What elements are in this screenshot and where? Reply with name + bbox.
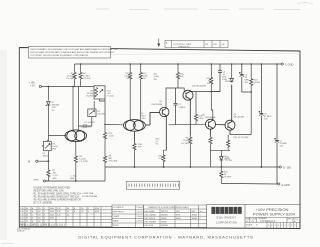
ECO strip text	[166, 42, 225, 49]
parts list table	[19, 207, 112, 227]
svg-text:64: 64	[67, 208, 69, 210]
notice box	[29, 46, 111, 58]
diode D4	[230, 64, 234, 82]
svg-text:1,500: 1,500	[109, 136, 115, 138]
D1 value label	[52, 102, 60, 112]
svg-text:DRA 102: DRA 102	[17, 230, 25, 233]
transistor Q2 dual 2N2060	[123, 120, 145, 142]
node junction A	[48, 86, 50, 88]
R2 value label	[53, 170, 58, 180]
svg-text:RESISTORS ARE 1/4W, 10%: RESISTORS ARE 1/4W, 10%	[34, 189, 64, 192]
wire R2 bottom	[46, 178, 49, 181]
svg-text:2: 2	[294, 225, 295, 227]
wire R13 to R8	[104, 140, 106, 154]
svg-text:1N645: 1N645	[192, 214, 198, 216]
svg-text:2-10: 2-10	[57, 208, 61, 210]
terminal M	[28, 160, 48, 164]
trimpot R7 box	[88, 101, 96, 117]
node bus junction R4	[80, 63, 82, 65]
wire Q1 collector right	[78, 87, 80, 131]
C5 value label	[245, 74, 250, 84]
svg-text:WW: WW	[52, 149, 56, 151]
wire left column upper	[47, 87, 49, 101]
svg-text:TC-200: TC-200	[107, 96, 115, 98]
svg-text:DEC3009B: DEC3009B	[152, 104, 163, 106]
svg-text:2: 2	[200, 218, 201, 220]
wire R8 to mid bus	[104, 164, 106, 167]
svg-text:STEPHSON: STEPHSON	[113, 212, 124, 214]
R7 value label	[97, 111, 105, 116]
R19 floating label	[156, 138, 161, 145]
svg-text:WADE: WADE	[113, 220, 119, 223]
svg-text:2-10: 2-10	[20, 208, 24, 210]
svg-text:1%,.4W: 1%,.4W	[66, 78, 73, 80]
node bus junction R18	[211, 63, 213, 65]
zener D1	[46, 102, 50, 107]
parts list text	[20, 207, 99, 226]
wire R21 bottom	[189, 145, 191, 167]
svg-text:DM: DM	[214, 44, 217, 46]
svg-text:2-10: 2-10	[20, 211, 24, 213]
svg-text:DEC3009B: DEC3009B	[205, 117, 216, 119]
ground bus wire	[221, 182, 277, 185]
svg-text:GRN: GRN	[34, 179, 39, 181]
svg-text:64: 64	[67, 211, 69, 213]
R17 value label	[158, 156, 163, 161]
resistor R1	[73, 64, 76, 87]
node bus junction R12	[129, 63, 131, 65]
svg-text:t: t	[231, 210, 232, 214]
transistor Q5	[206, 117, 216, 136]
node bus junction R15	[177, 63, 179, 65]
signature table text	[113, 206, 143, 227]
bottom strip text	[246, 224, 295, 227]
notes block	[34, 186, 82, 204]
R26 value label	[225, 157, 232, 162]
svg-text:2: 2	[285, 225, 286, 227]
svg-text:DEC3009B: DEC3009B	[234, 116, 245, 118]
node junction R16	[134, 166, 136, 168]
node bus junction C6	[261, 63, 263, 65]
svg-text:1N430: 1N430	[161, 222, 167, 224]
svg-text:R1, R2 AND R4 ARE 1N645 CPML T: R1, R2 AND R4 ARE 1N645 CPML TYPE 1CA	[34, 192, 82, 195]
Q6 reference label	[234, 114, 245, 119]
svg-text:2-10: 2-10	[20, 214, 24, 216]
node bus junction R22	[250, 63, 252, 65]
D2 label	[43, 153, 50, 158]
svg-text:.01MFD: .01MFD	[178, 107, 186, 109]
capacitor C7	[274, 64, 279, 184]
wire R17 leads	[164, 150, 167, 167]
title text	[253, 207, 296, 217]
svg-text:3: 3	[44, 214, 45, 216]
svg-text:1%,1/4W: 1%,1/4W	[181, 143, 189, 145]
resistor R26	[227, 135, 230, 151]
node junction +10V rail	[72, 86, 74, 88]
R5 note label	[107, 91, 115, 98]
svg-text:64: 64	[26, 208, 28, 210]
svg-text:2: 2	[44, 211, 45, 213]
svg-text:2: 2	[291, 225, 292, 227]
resistor R20	[194, 92, 197, 125]
svg-text:5%: 5%	[156, 144, 159, 146]
R1 value label	[66, 73, 74, 80]
svg-text:56,000: 56,000	[254, 82, 261, 84]
wire Q1 emitter	[75, 142, 77, 154]
wire Q5 emitter chain	[211, 145, 231, 167]
svg-text:DEC 2N2060: DEC 2N2060	[145, 214, 156, 216]
svg-text:2-10: 2-10	[20, 218, 24, 220]
wire left column mid	[47, 105, 49, 141]
svg-text:2N1754: 2N1754	[161, 211, 168, 213]
svg-text:1,000: 1,000	[198, 118, 204, 120]
wire Q5 base feed	[169, 123, 206, 126]
D4 value label	[225, 78, 232, 83]
svg-text:6534: 6534	[176, 214, 180, 216]
resistor R17	[162, 153, 165, 163]
svg-text:1N645: 1N645	[225, 81, 232, 83]
svg-text:CS 6204-0-1: CS 6204-0-1	[260, 219, 276, 223]
svg-text:DEC: DEC	[176, 211, 181, 213]
R22 value label	[254, 79, 261, 84]
connector J1	[127, 181, 180, 189]
svg-text:COLLATE R: COLLATE R	[113, 206, 124, 209]
capacitor C3	[211, 64, 222, 92]
svg-text:1%,1/4W: 1%,1/4W	[79, 161, 87, 163]
svg-text:2: 2	[278, 225, 279, 227]
diode D3	[220, 150, 224, 167]
resistor R16	[133, 142, 136, 152]
potentiometer R5 box	[94, 86, 105, 99]
C6 value label	[264, 113, 272, 120]
svg-text:DEC 3208: DEC 3208	[145, 225, 154, 227]
R20 value label	[198, 115, 204, 120]
svg-text:50V: 50V	[280, 146, 284, 148]
wire Q1 base feed	[48, 135, 64, 137]
resistor R22a	[209, 136, 212, 146]
terminal +10V IN	[29, 82, 42, 88]
svg-text:M: M	[28, 160, 30, 164]
node mid bus junction C6	[261, 166, 263, 168]
Q5 reference label	[202, 114, 216, 119]
R12 value label	[124, 73, 130, 80]
svg-text:JW: JW	[205, 44, 208, 46]
svg-text:SCALE: SCALE	[246, 224, 253, 227]
capacitor C2	[79, 124, 86, 128]
wire Q3 collector row	[193, 91, 220, 93]
wire left column lower	[47, 151, 49, 169]
mid bus wire	[105, 166, 279, 168]
svg-text:5W: 5W	[143, 78, 146, 80]
conversion chart text	[145, 206, 203, 227]
svg-text:5%,WW: 5%,WW	[224, 177, 232, 179]
R5 value label	[86, 91, 94, 98]
svg-text:430B: 430B	[176, 218, 181, 220]
potentiometer R6	[42, 140, 51, 151]
DEC logo digital	[211, 207, 241, 214]
resistor R18	[210, 64, 213, 92]
svg-text:CORPORATION: CORPORATION	[216, 221, 237, 225]
C7 value label	[280, 140, 288, 147]
svg-text:d: d	[212, 210, 214, 214]
svg-text:1N3208: 1N3208	[161, 225, 168, 227]
resistor R4	[79, 64, 82, 87]
svg-text:6204: 6204	[50, 218, 54, 220]
svg-text:DEC 1N430B: DEC 1N430B	[145, 222, 157, 224]
node bus junction D4	[231, 63, 233, 65]
svg-text:R5, R6 AND R8 ARE GRADE 2M TYP: R5, R6 AND R8 ARE GRADE 2M TYPE E2A	[34, 195, 80, 198]
svg-text:EQUIPMENT: EQUIPMENT	[217, 216, 237, 220]
svg-text:Q1 2N2060: Q1 2N2060	[81, 126, 92, 128]
svg-text:BY G.A. WIREWD: BY G.A. WIREWD	[34, 201, 53, 204]
node C GND terminal	[281, 63, 293, 67]
svg-text:+ IN: + IN	[30, 85, 35, 88]
node junction R17	[163, 166, 165, 168]
R10 value label	[143, 73, 149, 80]
R9 tolerance note	[70, 175, 75, 180]
resistor R8	[103, 154, 106, 164]
node bus junction R10	[140, 63, 142, 65]
svg-text:64: 64	[26, 221, 28, 223]
resistor R13	[103, 131, 106, 141]
svg-text:2: 2	[275, 225, 276, 227]
svg-text:2-10: 2-10	[20, 221, 24, 223]
svg-text:6204: 6204	[50, 211, 54, 213]
svg-text:Q3 DEC3009B: Q3 DEC3009B	[192, 86, 206, 88]
ECO revision strip	[165, 40, 228, 47]
svg-text:5%: 5%	[52, 110, 55, 112]
transistor Q1 dual 2N2060	[65, 130, 87, 142]
svg-text:1N430: 1N430	[192, 218, 198, 220]
wire R5 to R13 column	[100, 86, 106, 131]
wire +10V IN rail	[41, 86, 94, 88]
svg-text:2-10-64: 2-10-64	[136, 207, 143, 209]
transistor Q4	[146, 107, 169, 150]
top bus wire	[75, 63, 282, 65]
svg-text:CHANGE NO: CHANGE NO	[178, 45, 191, 48]
svg-text:2: 2	[268, 225, 269, 227]
capacitor C1	[174, 88, 178, 125]
D3 value label	[224, 156, 231, 161]
svg-text:C GND: C GND	[285, 63, 293, 67]
resistor R15	[166, 64, 184, 107]
svg-text:6204: 6204	[95, 211, 99, 213]
svg-text:1N645: 1N645	[224, 158, 231, 160]
size row text	[246, 218, 299, 223]
capacitor C6	[259, 64, 264, 167]
svg-text:R9, R21 ARE 50 PPM SUPERIOR RE: R9, R21 ARE 50 PPM SUPERIOR RESISTOR	[34, 198, 82, 201]
R4 value label	[83, 73, 90, 80]
R16 value label	[138, 144, 143, 149]
svg-text:2: 2	[271, 225, 272, 227]
production note text	[83, 192, 98, 198]
R23 value label	[224, 171, 232, 178]
title block size row	[245, 217, 300, 222]
svg-text:REV: REV	[288, 218, 293, 220]
svg-text:5: 5	[44, 221, 45, 223]
terminal D -15V	[279, 166, 291, 170]
svg-text:DEC 6534 B: DEC 6534 B	[145, 218, 156, 220]
svg-text:1%,WW: 1%,WW	[86, 96, 94, 98]
wire Q1 collector left	[72, 87, 74, 131]
svg-text:D -15V: D -15V	[283, 166, 291, 170]
svg-text:2: 2	[281, 225, 282, 227]
R13 value label	[109, 133, 115, 138]
svg-text:THIS SCHEMATIC IS FURNISHED ON: THIS SCHEMATIC IS FURNISHED ONLY FOR TES…	[30, 48, 118, 51]
svg-text:WW: WW	[53, 178, 57, 180]
node junction M	[48, 160, 50, 162]
svg-text:E GRD: E GRD	[282, 183, 290, 187]
svg-text:WW: WW	[70, 178, 74, 180]
svg-text:R24 10 5%,WW: R24 10 5%,WW	[234, 137, 249, 139]
svg-text:g: g	[221, 210, 223, 214]
svg-text:6204: 6204	[50, 208, 54, 210]
svg-text:DEC 3009B: DEC 3009B	[145, 211, 156, 213]
svg-text:COPYRIGHT 1963 BY DIGITAL EQUI: COPYRIGHT 1963 BY DIGITAL EQUIPMENT CORP…	[30, 54, 89, 57]
R18 value label	[206, 78, 211, 85]
svg-text:1: 1	[200, 214, 201, 216]
svg-text:5W: 5W	[126, 78, 129, 80]
svg-text:CLARK: CLARK	[113, 215, 120, 218]
svg-text:1: 1	[88, 208, 89, 210]
svg-text:CIRCUITS ARE PROPRIETARY IN NA: CIRCUITS ARE PROPRIETARY IN NATURE AND S…	[30, 51, 115, 54]
notice text	[30, 48, 118, 57]
svg-text:2: 2	[288, 225, 289, 227]
svg-text:250,000: 250,000	[97, 114, 105, 116]
wire ground rail y181	[46, 167, 106, 181]
svg-text:64: 64	[67, 214, 69, 216]
svg-text:64: 64	[26, 218, 28, 220]
svg-text:1N645: 1N645	[161, 218, 167, 220]
node junction C3 bottom	[211, 91, 213, 93]
svg-text:E DNB PNB IAB: E DNB PNB IAB	[83, 195, 98, 198]
DEC form note	[17, 228, 31, 232]
conversion chart table	[144, 205, 207, 227]
node junction R21	[189, 166, 191, 168]
terminal E GND	[278, 183, 290, 187]
resistor R12	[129, 64, 132, 120]
C3 value label	[222, 71, 227, 81]
svg-text:1: 1	[44, 208, 45, 210]
transistor Q6	[216, 85, 236, 135]
wire Q6 emitter row	[230, 134, 251, 136]
svg-text:POWER SUPPLY 6204: POWER SUPPLY 6204	[253, 212, 296, 217]
svg-text:50V: 50V	[245, 82, 249, 84]
node junction R13 top	[104, 124, 106, 126]
svg-text:a: a	[234, 210, 236, 214]
svg-text:TRANSISTOR & DIODE CONVERSION: TRANSISTOR & DIODE CONVERSION CHART	[148, 206, 190, 209]
resistor R21	[189, 136, 192, 146]
svg-text:DIGITAL EQUIPMENT CORPORATION: DIGITAL EQUIPMENT CORPORATION · MAYNARD,…	[78, 235, 253, 240]
wire Q5 collector	[211, 92, 213, 118]
wire Q2 base feed	[105, 123, 123, 125]
svg-text:2-10-64: 2-10-64	[136, 216, 143, 218]
Q4 reference label	[152, 101, 163, 106]
capacitor C5	[239, 64, 251, 92]
node junction ground rail	[75, 180, 77, 182]
svg-text:4: 4	[44, 218, 45, 220]
svg-text:2-10-64: 2-10-64	[136, 221, 143, 223]
R15 value label	[180, 74, 185, 79]
R14 value label	[142, 115, 147, 120]
svg-text:64: 64	[26, 214, 28, 216]
title block divider lines	[207, 204, 300, 227]
svg-text:27%,WW: 27%,WW	[109, 161, 118, 163]
node bus junction C7	[276, 63, 278, 65]
svg-text:64: 64	[26, 211, 28, 213]
svg-text:2N2060: 2N2060	[161, 214, 168, 216]
svg-text:UNLESS OTHERWISE INDICATED:: UNLESS OTHERWISE INDICATED:	[34, 186, 72, 189]
R6 value label	[52, 143, 58, 150]
wire R7 to C2	[86, 117, 92, 126]
svg-text:2-10-64: 2-10-64	[136, 212, 143, 214]
resistor R10	[139, 64, 142, 120]
resistor R22	[250, 64, 253, 135]
node bus junction C5	[241, 63, 243, 65]
svg-text:PROD: PROD	[113, 225, 119, 227]
resistor R23	[220, 167, 223, 183]
svg-text:2-10: 2-10	[57, 214, 61, 216]
svg-text:5W: 5W	[154, 79, 157, 81]
wire R16 to mid bus	[133, 151, 135, 167]
svg-text:2-10: 2-10	[57, 211, 61, 213]
wire R9 bottom	[75, 164, 77, 181]
title block bottom strip	[267, 223, 297, 229]
svg-text:C2 .01MFD: C2 .01MFD	[84, 122, 95, 124]
terminal GRN	[34, 179, 46, 182]
R8 value label	[109, 155, 118, 162]
C1 value label	[178, 104, 186, 109]
revision arrow	[157, 39, 160, 48]
svg-text:1%,.4W: 1%,.4W	[83, 78, 90, 80]
R11 floating label	[154, 74, 160, 81]
R9 value label	[79, 156, 87, 163]
svg-text:50V: 50V	[264, 119, 268, 121]
signature table	[112, 205, 144, 227]
R21 value label	[181, 138, 190, 145]
DEC logo wordmark	[216, 216, 237, 225]
svg-text:2: 2	[88, 211, 89, 213]
svg-text:6204: 6204	[95, 208, 99, 210]
svg-text:6204: 6204	[50, 214, 54, 216]
svg-text:CLWR LWA: CLWR LWA	[83, 192, 94, 195]
node mid bus junction R23	[220, 166, 222, 168]
transistor Q3	[183, 90, 193, 135]
resistor R2	[47, 169, 50, 179]
parts table tick row	[21, 223, 64, 226]
resistor R9	[74, 154, 77, 164]
svg-text:1W: 1W	[207, 83, 210, 85]
node junction C5 R22	[250, 91, 252, 93]
